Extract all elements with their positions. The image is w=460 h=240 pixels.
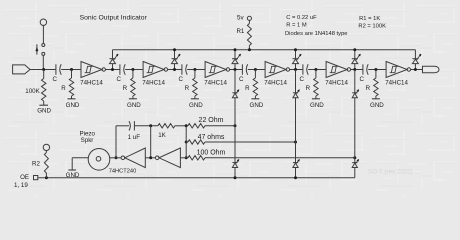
capacitor C1 xyxy=(56,64,61,74)
label 100K xyxy=(25,88,40,95)
wire xyxy=(187,69,205,71)
svg-text:Sonic Output Indicator: Sonic Output Indicator xyxy=(80,14,148,21)
node at D6 xyxy=(414,68,417,71)
resistor R (stage 5) xyxy=(314,70,318,99)
resistor R (stage 2) xyxy=(131,70,135,99)
node column A on OE rail xyxy=(234,176,237,179)
ground (stage 4) xyxy=(251,98,259,100)
label GND (stage 5) xyxy=(310,102,324,109)
buffer U7a 74HCT240 xyxy=(121,148,145,168)
label 100 Ohm xyxy=(197,150,226,157)
diode column A upper (1N4148) xyxy=(232,70,239,126)
node at D1 xyxy=(111,68,114,71)
label GND (stage 3) xyxy=(189,102,203,109)
capacitor C5 xyxy=(303,64,308,74)
wire xyxy=(110,157,121,159)
svg-text:R2: R2 xyxy=(32,161,40,168)
svg-text:47 ohms: 47 ohms xyxy=(198,134,225,141)
svg-text:C: C xyxy=(52,76,57,83)
capacitor C2 xyxy=(120,64,125,74)
rail junction xyxy=(294,48,297,51)
node at D3 xyxy=(234,68,237,71)
node bus-47 xyxy=(185,141,188,144)
svg-text:1 uF: 1 uF xyxy=(128,134,141,141)
node J3 xyxy=(193,68,196,71)
diode D5 (1N4148) xyxy=(352,50,361,70)
svg-text:GND: GND xyxy=(37,108,51,115)
node bus-22 xyxy=(185,124,188,127)
label 74HC14 (U3) xyxy=(204,79,227,86)
label GND (speaker) xyxy=(66,172,80,179)
wire xyxy=(175,125,186,127)
label R (stage 1) xyxy=(61,85,66,92)
wire xyxy=(42,25,44,43)
capacitor C3 xyxy=(182,64,187,74)
diode D4 (1N4148) xyxy=(293,50,302,70)
svg-text:22 Ohm: 22 Ohm xyxy=(199,117,224,124)
ground xyxy=(39,104,48,106)
label C6 xyxy=(359,76,364,83)
ground (stage 1) xyxy=(68,98,76,100)
svg-text:C: C xyxy=(299,76,304,83)
label GND xyxy=(37,108,51,115)
rail junction xyxy=(173,48,176,51)
label Spkr xyxy=(81,137,94,144)
ground (stage 5) xyxy=(312,98,320,100)
capacitor C6 xyxy=(363,64,368,74)
node osc junction xyxy=(149,124,152,127)
label C4 xyxy=(239,76,244,83)
svg-text:74HC14: 74HC14 xyxy=(325,79,348,86)
label 74HC14 (U5) xyxy=(325,79,348,86)
resistor R (stage 6) xyxy=(374,70,378,99)
svg-text:1K: 1K xyxy=(158,132,166,139)
svg-text:GND: GND xyxy=(189,102,203,109)
input connector xyxy=(13,65,30,74)
label 1 uF xyxy=(128,134,141,141)
label R (stage 4) xyxy=(245,85,250,92)
OE rail xyxy=(38,177,355,179)
capacitor 1uF xyxy=(129,121,134,130)
svg-text:OE: OE xyxy=(20,174,29,181)
resistor R2 xyxy=(44,151,48,178)
resistor R (stage 4) xyxy=(253,70,257,99)
+5V rail xyxy=(113,49,416,51)
svg-text:C: C xyxy=(239,76,244,83)
wire xyxy=(42,55,44,69)
label R (stage 5) xyxy=(306,85,311,92)
wire xyxy=(115,126,117,158)
svg-text:100K: 100K xyxy=(25,88,40,95)
inverter U4 74HC14 xyxy=(265,62,289,78)
svg-text:74HC14: 74HC14 xyxy=(385,79,408,86)
diode column C upper (1N4148) xyxy=(352,70,359,158)
label C3 xyxy=(178,76,183,83)
label R (stage 2) xyxy=(123,85,128,92)
note R1 value xyxy=(359,16,380,22)
svg-text:74HC14: 74HC14 xyxy=(80,79,103,86)
resistor R (stage 1) xyxy=(69,70,73,99)
label GND (stage 1) xyxy=(66,102,80,109)
wire xyxy=(116,125,129,127)
svg-text:74HC14: 74HC14 xyxy=(204,79,227,86)
note diodes xyxy=(285,31,348,37)
wire (bus) xyxy=(185,126,187,158)
wire xyxy=(125,69,143,71)
label 74HCT240 xyxy=(109,169,137,175)
resistor 100 Ohm xyxy=(188,156,205,160)
capacitor C4 xyxy=(242,64,247,74)
resistor R (stage 3) xyxy=(193,70,197,99)
svg-text:R: R xyxy=(123,85,128,92)
diode column B upper (1N4148) xyxy=(293,70,300,143)
rail junction xyxy=(353,48,356,51)
ground (stage 6) xyxy=(372,98,380,100)
ground (stage 3) xyxy=(191,98,199,100)
diode D3 (1N4148) xyxy=(232,50,241,70)
inverter U5 74HC14 xyxy=(326,62,350,78)
svg-text:Diodes are 1N4148 type: Diodes are 1N4148 type xyxy=(285,31,348,37)
wire xyxy=(205,157,355,159)
resistor 100K xyxy=(42,70,46,106)
wire xyxy=(205,141,296,143)
node J0 xyxy=(42,68,45,71)
wire xyxy=(308,69,326,71)
wire xyxy=(205,125,235,127)
svg-text:GND: GND xyxy=(250,102,264,109)
node J6 xyxy=(374,68,377,71)
node R1-rail xyxy=(248,48,251,51)
inverter U6 74HC14 xyxy=(386,62,410,78)
buffer U7b 74HCT240 xyxy=(155,148,180,168)
wire xyxy=(368,69,386,71)
inverter U2 74HC14 xyxy=(143,62,167,78)
node at D5 xyxy=(353,68,356,71)
node at D2 xyxy=(173,68,176,71)
svg-text:Spkr: Spkr xyxy=(81,137,94,144)
wire xyxy=(351,69,363,71)
wire xyxy=(145,157,155,159)
resistor 22 Ohm xyxy=(188,124,205,128)
svg-text:R: R xyxy=(245,85,250,92)
label 1K xyxy=(158,132,166,139)
label 1, 19 xyxy=(14,182,28,189)
note R2 value xyxy=(358,24,386,30)
terminal R2 top xyxy=(43,144,49,150)
diode column A lower (1N4148) xyxy=(232,126,239,178)
svg-text:100 Ohm: 100 Ohm xyxy=(197,150,226,157)
svg-text:5v: 5v xyxy=(237,14,244,21)
wire xyxy=(150,126,152,158)
watermark xyxy=(368,169,413,176)
label GND (stage 2) xyxy=(127,102,141,109)
node J5 xyxy=(314,68,317,71)
node J4 xyxy=(254,68,257,71)
wire xyxy=(168,69,182,71)
label 5v xyxy=(237,14,244,21)
label 74HC14 (U2) xyxy=(142,79,165,86)
label 47 ohms xyxy=(198,134,225,141)
svg-text:74HCT240: 74HCT240 xyxy=(109,169,137,175)
wire xyxy=(61,69,81,71)
label OE xyxy=(20,174,29,181)
resistor 47 ohms xyxy=(188,140,205,144)
node 47-tap xyxy=(294,141,297,144)
diode D6 (1N4148) xyxy=(412,50,421,70)
svg-text:R: R xyxy=(366,85,371,92)
title text xyxy=(80,14,148,21)
pad OE xyxy=(34,176,38,180)
svg-text:C: C xyxy=(359,76,364,83)
svg-text:R: R xyxy=(306,85,311,92)
wire xyxy=(230,69,243,71)
wire xyxy=(30,69,56,71)
node feedback tap xyxy=(115,156,118,159)
svg-text:C = 0.22 uF: C = 0.22 uF xyxy=(286,15,317,21)
svg-text:R: R xyxy=(61,85,66,92)
label C1 xyxy=(52,76,57,83)
node J2 xyxy=(131,68,134,71)
label 74HC14 (U4) xyxy=(264,79,287,86)
node 100-tap xyxy=(353,156,356,159)
svg-text:C: C xyxy=(178,76,183,83)
svg-text:74HC14: 74HC14 xyxy=(264,79,287,86)
note R value xyxy=(286,22,307,28)
wire xyxy=(180,157,186,159)
svg-text:R1 = 1K: R1 = 1K xyxy=(359,16,380,22)
diode column C lower (1N4148) xyxy=(352,158,359,178)
svg-text:R2 = 100K: R2 = 100K xyxy=(358,24,386,30)
label R (stage 3) xyxy=(185,85,190,92)
note C value xyxy=(286,15,317,21)
diode D2 (1N4148) xyxy=(172,50,181,70)
wire xyxy=(290,69,303,71)
node J1 xyxy=(70,68,73,71)
svg-text:74HC14: 74HC14 xyxy=(142,79,165,86)
node at D4 xyxy=(294,68,297,71)
label C2 xyxy=(116,76,121,83)
svg-text:SO-T (rev 2002): SO-T (rev 2002) xyxy=(368,169,413,176)
ground (speaker) xyxy=(68,158,76,170)
node 22-tap xyxy=(234,124,237,127)
label 74HC14 (U6) xyxy=(385,79,408,86)
resistor 1K xyxy=(158,124,175,128)
wire xyxy=(134,125,158,127)
wire xyxy=(411,69,423,71)
label C5 xyxy=(299,76,304,83)
svg-text:GND: GND xyxy=(66,102,80,109)
diode column B lower (1N4148) xyxy=(293,142,300,178)
svg-text:GND: GND xyxy=(127,102,141,109)
svg-text:R1: R1 xyxy=(236,28,244,35)
label R (stage 6) xyxy=(366,85,371,92)
node column B on OE rail xyxy=(294,176,297,179)
node bus-100 xyxy=(185,156,188,159)
label GND (stage 6) xyxy=(370,102,384,109)
node inter-buffer xyxy=(149,156,152,159)
wire xyxy=(106,69,120,71)
rail junction xyxy=(234,48,237,51)
svg-text:R: R xyxy=(185,85,190,92)
terminal 5v xyxy=(247,16,251,20)
ground (stage 2) xyxy=(129,98,137,100)
resistor R1 xyxy=(247,20,251,49)
inverter U3 74HC14 xyxy=(205,62,229,78)
label R1 xyxy=(236,28,244,35)
label 22 Ohm xyxy=(199,117,224,124)
diode D1 (1N4148) xyxy=(110,50,119,70)
svg-text:C: C xyxy=(116,76,121,83)
label GND (stage 4) xyxy=(250,102,264,109)
svg-text:GND: GND xyxy=(310,102,324,109)
label 74HC14 (U1) xyxy=(80,79,103,86)
switch S1 (pushbutton) xyxy=(36,44,45,56)
terminal T1 (open circle) xyxy=(40,19,46,25)
inverter U1 74HC14 xyxy=(81,62,106,78)
piezo speaker SP1 xyxy=(88,149,110,171)
output connector xyxy=(423,66,440,73)
wire xyxy=(72,157,88,159)
node R2-OE xyxy=(45,176,48,179)
label Piezo xyxy=(79,130,95,137)
svg-text:GND: GND xyxy=(370,102,384,109)
wire xyxy=(248,69,265,71)
svg-text:R = 1 M: R = 1 M xyxy=(286,22,307,28)
svg-text:1, 19: 1, 19 xyxy=(14,182,28,189)
label R2 xyxy=(32,161,40,168)
